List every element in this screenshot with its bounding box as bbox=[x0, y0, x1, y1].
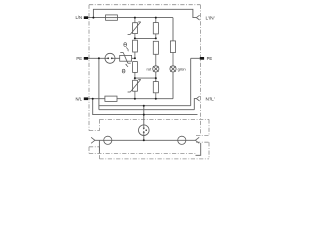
wire PE via and PE bus H1/H2 bbox=[99, 58, 200, 109]
resistor R1 bbox=[133, 40, 138, 58]
svg-text:grün: grün bbox=[178, 66, 186, 71]
connector base left (plug symbol) bbox=[91, 137, 95, 143]
wire N'/L' drop to H2 bbox=[194, 99, 196, 110]
wire PE row bbox=[86, 57, 105, 59]
connector base right (plug symbol) bbox=[195, 137, 199, 143]
fuse F1 (L) bbox=[106, 15, 118, 20]
wire cross link upper (between columns A and B) bbox=[135, 37, 156, 39]
base part boundary (dash-dot lower box) bbox=[100, 119, 210, 158]
svg-text:N'/L': N'/L' bbox=[206, 96, 215, 101]
gas discharge tube GDT2 (base part) bbox=[139, 106, 150, 141]
resistor R6 bbox=[170, 41, 175, 66]
svg-text:PE: PE bbox=[76, 56, 82, 61]
svg-text:L'/N': L'/N' bbox=[206, 15, 215, 20]
wire cross link lower (between columns A and B) bbox=[135, 77, 156, 79]
resistor R4 bbox=[153, 41, 158, 66]
wire gruen lamp to N/L row bbox=[172, 72, 174, 99]
terminal PE right bbox=[200, 57, 204, 60]
wire N through-path (down, across H3) bbox=[93, 99, 198, 115]
module boundary (dash-dot main box) bbox=[89, 5, 200, 154]
resistor R5 bbox=[153, 82, 158, 99]
spark gap FS1 (rect with diagonal) bbox=[120, 53, 132, 64]
wire L/N bypass to L'/N' bbox=[93, 9, 196, 17]
svg-text:PE: PE bbox=[207, 56, 213, 61]
svg-text:rot: rot bbox=[147, 66, 153, 71]
wire L/N drop to R6 bbox=[172, 18, 174, 41]
svg-text:N/L: N/L bbox=[75, 96, 82, 101]
wire rot lamp to junction bbox=[155, 72, 157, 82]
terminal PE left bbox=[84, 57, 88, 60]
junction dots bbox=[92, 17, 157, 142]
contact circle K1 bbox=[104, 136, 112, 144]
connector L'/N' (plug symbol) bbox=[196, 15, 199, 20]
thermal disconnect theta 2 bbox=[122, 64, 128, 73]
terminal N/L bbox=[84, 97, 88, 100]
wire base hook right bbox=[196, 143, 201, 155]
svg-text:L/N: L/N bbox=[75, 15, 82, 20]
wire N/L input row bbox=[86, 98, 173, 100]
gas discharge tube GDT1 (PE row) bbox=[105, 53, 115, 63]
thermal disconnect theta 1 bbox=[124, 43, 129, 52]
connector N'/L' (plug symbol) bbox=[196, 96, 199, 101]
wire base through line bbox=[95, 139, 195, 141]
varistor MOV2 bottom bbox=[128, 78, 141, 99]
wire base PE drop left bbox=[98, 140, 100, 153]
wire L/N input row bbox=[86, 17, 173, 19]
signal lamp rot bbox=[153, 66, 159, 72]
terminal L/N bbox=[84, 16, 88, 19]
signal lamp gruen bbox=[170, 66, 176, 72]
contact circle K2 bbox=[178, 136, 186, 144]
resistor R2 bbox=[133, 62, 138, 79]
resistor R3 bbox=[153, 18, 158, 39]
fuse F2 (N) bbox=[105, 96, 117, 101]
varistor MOV1 top bbox=[128, 18, 141, 39]
